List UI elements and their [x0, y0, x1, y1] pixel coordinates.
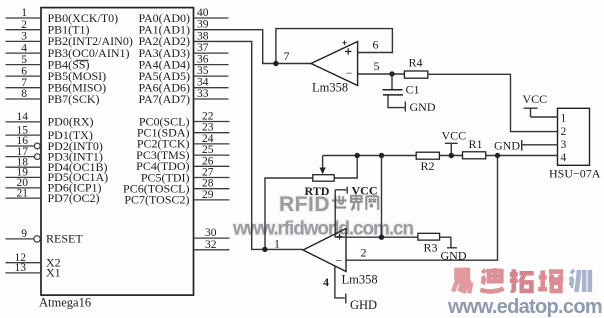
op-amp U1 Lm358	[311, 41, 358, 95]
svg-text:36: 36	[197, 54, 209, 66]
svg-text:PB7(SCK): PB7(SCK)	[48, 92, 100, 106]
pin 26 wire	[194, 165, 230, 167]
svg-text:GHD: GHD	[350, 298, 377, 312]
pin 27 wire	[194, 177, 230, 179]
svg-text:PA7(AD7): PA7(AD7)	[138, 92, 190, 106]
pin 29 wire	[194, 199, 230, 201]
VCC tap on row	[442, 129, 467, 156]
svg-text:C1: C1	[406, 83, 420, 97]
pin 13 wire	[6, 272, 42, 274]
pin 7 wire	[6, 87, 42, 89]
IC U-Atmega16 box	[41, 8, 194, 296]
svg-text:28: 28	[202, 178, 214, 190]
svg-text:24: 24	[202, 133, 214, 145]
junction +input/vertical	[379, 235, 384, 240]
wire +input row through R3	[335, 236, 418, 238]
svg-text:2: 2	[361, 246, 367, 260]
pin 33 wire	[194, 98, 229, 100]
svg-text:9: 9	[21, 228, 27, 240]
svg-text:25: 25	[202, 144, 214, 156]
pin 23 wire	[194, 132, 230, 134]
pin 17 wire	[6, 156, 35, 158]
pin 3 wire	[6, 40, 42, 42]
svg-text:30: 30	[205, 227, 217, 239]
VCC stub near RTD	[335, 184, 377, 238]
svg-text:www.rfidworld.com.cn: www.rfidworld.com.cn	[232, 219, 413, 240]
pin 6 wire	[6, 75, 42, 77]
wire RTD left lead to opamp2 output	[265, 178, 313, 249]
svg-text:−: −	[336, 254, 343, 268]
watermark 易迪拓培训 (red)	[453, 268, 590, 293]
svg-text:34: 34	[197, 77, 209, 89]
resistor R1	[463, 137, 486, 159]
pin 9 RESET wire	[6, 238, 34, 240]
pin 22 wire	[194, 121, 230, 123]
svg-text:32: 32	[205, 239, 217, 251]
watermark RFID世界网	[279, 193, 378, 216]
wire pin38 to opamp2 output	[194, 41, 304, 249]
svg-text:40: 40	[197, 7, 209, 19]
svg-text:1: 1	[274, 237, 280, 251]
junction VCC tap	[449, 153, 454, 158]
svg-text:4: 4	[323, 275, 329, 289]
svg-text:1: 1	[561, 113, 567, 125]
svg-text:35: 35	[197, 65, 209, 77]
VCC at HSU pin1	[523, 92, 558, 117]
resistor R4	[404, 56, 427, 79]
pin 35 wire	[194, 75, 229, 77]
overline SS	[76, 59, 89, 61]
wire row down to -input	[346, 156, 498, 261]
junction opamp2 output / RTD feedback	[262, 247, 267, 252]
svg-text:3: 3	[561, 139, 567, 151]
svg-text:R2: R2	[421, 159, 435, 173]
svg-text:1: 1	[21, 7, 27, 19]
svg-text:14: 14	[17, 111, 29, 123]
svg-text:Atmega16: Atmega16	[39, 296, 91, 310]
pin 14 wire	[6, 121, 42, 123]
svg-text:37: 37	[197, 42, 209, 54]
svg-text:R4: R4	[409, 56, 423, 70]
svg-text:HSU−07A: HSU−07A	[549, 167, 601, 181]
pin 8 wire	[6, 98, 42, 100]
inversion circle pin17	[34, 154, 40, 160]
junction opamp1 output/feedback	[273, 61, 278, 66]
svg-text:23: 23	[202, 122, 214, 134]
svg-text:GND: GND	[410, 100, 436, 114]
svg-text:RESET: RESET	[46, 232, 83, 246]
inversion circle pin16	[34, 143, 40, 149]
svg-text:VCC: VCC	[442, 129, 467, 143]
pin 34 wire	[194, 87, 229, 89]
svg-text:7: 7	[284, 49, 290, 63]
pin 19 wire	[6, 176, 42, 178]
svg-text:6: 6	[373, 38, 379, 52]
pin 32 wire	[194, 249, 230, 251]
svg-text:5: 5	[374, 59, 380, 73]
svg-text:4: 4	[21, 42, 27, 54]
pin 40 wire	[194, 17, 229, 19]
svg-text:33: 33	[197, 88, 209, 100]
svg-text:www.edatop.com: www.edatop.com	[447, 296, 602, 318]
svg-text:RTD: RTD	[305, 184, 330, 198]
svg-text:3: 3	[21, 31, 27, 43]
svg-text:4: 4	[561, 152, 567, 164]
svg-text:27: 27	[202, 167, 214, 179]
svg-text:26: 26	[202, 155, 214, 167]
pin 12 wire	[6, 262, 42, 264]
wire R4 to HSU pin2	[428, 74, 558, 131]
svg-text:6: 6	[21, 65, 27, 77]
ground below C1	[388, 95, 436, 114]
svg-text:22: 22	[202, 111, 214, 123]
svg-text:R3: R3	[424, 241, 438, 255]
svg-text:VCC: VCC	[352, 184, 378, 198]
svg-text:−: −	[346, 66, 353, 80]
pin 30 wire	[194, 237, 230, 239]
svg-text:X1: X1	[46, 266, 61, 280]
pin 18 wire	[6, 166, 42, 168]
junction pin5/R4/C1	[389, 71, 394, 76]
svg-text:29: 29	[202, 189, 214, 201]
pin 37 wire	[194, 52, 229, 54]
resistor R3	[418, 233, 440, 254]
svg-text:7: 7	[21, 77, 27, 89]
svg-text:2: 2	[561, 126, 567, 138]
svg-text:39: 39	[197, 19, 209, 31]
svg-text:5: 5	[21, 54, 27, 66]
wire R3 to ground	[440, 237, 457, 248]
junction RTD right / row	[355, 153, 360, 158]
svg-text:21: 21	[17, 187, 29, 199]
wire pin39 to opamp1 output	[194, 30, 312, 64]
resistor R2	[416, 152, 439, 173]
svg-text:Lm358: Lm358	[342, 273, 378, 287]
pin 4 wire	[6, 52, 42, 54]
pin 20 wire	[6, 187, 42, 189]
RTD resistor body	[305, 175, 335, 198]
pin 21 wire	[6, 197, 42, 199]
svg-text:R1: R1	[469, 137, 483, 151]
pin 15 wire	[6, 134, 42, 136]
wire RTD right lead up to row	[334, 156, 357, 179]
RTD wiper arrow	[320, 156, 326, 175]
wire row down to +input	[381, 156, 383, 238]
svg-text:GND: GND	[441, 249, 467, 263]
pin 36 wire	[194, 64, 229, 66]
svg-text:PC7(TOSC2): PC7(TOSC2)	[124, 193, 189, 207]
wire pin5 input to R4	[358, 73, 405, 75]
capacitor C1	[383, 74, 420, 97]
pin 1 wire	[6, 17, 42, 19]
pin 24 wire	[194, 143, 230, 145]
svg-text:VCC: VCC	[523, 92, 548, 106]
GND at HSU pin3	[494, 139, 558, 153]
svg-text:PD7(OC2): PD7(OC2)	[48, 191, 100, 205]
pin 2 wire	[6, 29, 42, 31]
inversion circle pin9	[34, 236, 40, 242]
wire main row to HSU pin4	[323, 155, 558, 157]
pin 25 wire	[194, 154, 230, 156]
svg-text:8: 8	[21, 88, 27, 100]
svg-text:PD0(RX): PD0(RX)	[48, 115, 94, 129]
svg-text:13: 13	[15, 262, 27, 274]
pin 16 wire	[6, 145, 35, 147]
wire feedback loop pin6 to output	[276, 29, 393, 64]
junction row / +input vertical	[379, 153, 384, 158]
junction row / -input vertical	[495, 153, 500, 158]
pin 28 wire	[194, 188, 230, 190]
svg-text:38: 38	[197, 30, 209, 42]
svg-text:2: 2	[21, 19, 27, 31]
svg-text:GND: GND	[494, 139, 520, 153]
wire opamp2 pin4 to ground	[335, 267, 346, 304]
svg-text:Lm358: Lm358	[312, 81, 348, 95]
pin 5 wire	[6, 64, 42, 66]
